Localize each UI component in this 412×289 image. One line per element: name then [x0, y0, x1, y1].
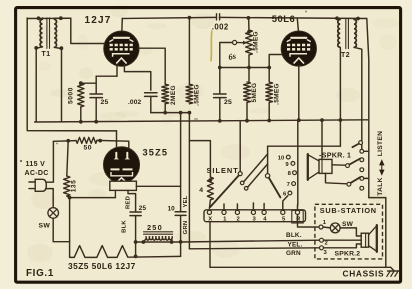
node pot bottom — [247, 66, 251, 70]
svg-text:FIG.1: FIG.1 — [26, 268, 54, 279]
svg-text:SUB-STATION: SUB-STATION — [320, 206, 377, 215]
svg-text:115 V: 115 V — [26, 161, 46, 168]
talk-listen double arrow — [380, 161, 384, 175]
wire top rail right of coupling cap — [219, 17, 366, 18]
svg-text:GRN: GRN — [183, 221, 189, 235]
wire yellow column lower — [180, 216, 182, 242]
wire 50 line — [53, 140, 76, 143]
wire 25uf cap column — [95, 76, 97, 122]
wire spkr1 top lead — [321, 121, 323, 160]
annotation Gs — [227, 50, 237, 61]
rotary contacts 6-10 — [278, 155, 297, 197]
label RED — [125, 196, 131, 209]
label SPKR.1 — [319, 150, 351, 159]
wire tl r4 to bus — [364, 177, 369, 179]
component 250 filter — [143, 232, 172, 242]
label 35Z5 — [143, 147, 169, 157]
wire section ground bus — [35, 120, 369, 122]
node bus 25cap2 — [218, 119, 222, 123]
wire riser 4 — [263, 204, 265, 211]
wire rail to .5MEG — [188, 18, 190, 85]
transformer T2 core — [346, 18, 349, 48]
node yel-b-minus — [179, 240, 183, 244]
node rail-T2a — [335, 16, 339, 20]
node bus 5000 — [79, 120, 83, 124]
wire plug hot to 50 line — [46, 141, 53, 182]
label 50L6 — [272, 13, 295, 24]
svg-text:.002: .002 — [128, 99, 141, 106]
wire SW to heater corner — [53, 218, 69, 242]
wire riser R — [297, 205, 299, 210]
wire T1 primary top lead — [42, 18, 44, 19]
node 50 right — [98, 139, 102, 143]
node T1 secondary top — [59, 16, 63, 20]
wire pot top — [247, 16, 251, 34]
wire 5000 to bus — [80, 107, 82, 122]
lamp SW sub-station — [330, 221, 353, 233]
wire wiper to 25 cap — [220, 43, 233, 68]
wire below 25 filter — [135, 216, 137, 257]
svg-text:25: 25 — [101, 99, 109, 106]
wire 135 to heater line — [67, 196, 70, 257]
resistor 135 — [64, 176, 78, 196]
svg-text:SILENT: SILENT — [207, 166, 239, 175]
label BLK. — [286, 232, 302, 239]
wire lamp to spkr2 — [340, 228, 361, 236]
transformer T1 primary coil — [40, 19, 42, 47]
wire 12J7 cathode stub left — [116, 65, 118, 77]
tl arm mid — [349, 159, 360, 165]
strip extra box R — [292, 210, 303, 223]
contact tl r2 — [360, 158, 364, 162]
pencil scratch artifact — [211, 31, 212, 62]
node heater-end junction — [134, 255, 138, 259]
svg-text:250: 250 — [147, 223, 163, 232]
tube 35Z5 socket — [110, 181, 137, 197]
resistor 5MEG — [244, 82, 258, 103]
wire left B+ drop — [27, 18, 116, 131]
wire yel column to heater end — [180, 242, 182, 256]
node T1 secondary bottom — [60, 46, 64, 50]
wire to 5000 resistor — [81, 82, 96, 84]
tube 35Z5 — [103, 147, 139, 183]
speaker SPKR.1 — [308, 154, 332, 180]
wire T1 top lead — [27, 17, 71, 19]
resistor 2MEG — [162, 84, 177, 105]
node mid grn-wire — [188, 111, 192, 115]
label LISTEN — [377, 131, 384, 157]
wire talk pivot riser — [267, 146, 269, 173]
wire lower bus y67 — [220, 67, 269, 69]
node 250 right — [170, 240, 174, 244]
contact tl r3 — [360, 168, 364, 172]
wire .002 to mid-line — [150, 97, 152, 113]
wire talk riser crossbar — [268, 145, 341, 147]
wire 50L6 cathode drop to R — [297, 122, 299, 206]
svg-text:SW: SW — [39, 223, 51, 230]
terminal 2 — [320, 238, 329, 246]
wire yellow column — [180, 113, 182, 212]
tl arm top — [352, 144, 359, 148]
svg-text:.5MEG: .5MEG — [273, 83, 280, 105]
node bus 50L6 — [297, 118, 301, 122]
label CHASSIS — [343, 268, 385, 278]
svg-text:T2: T2 — [341, 52, 350, 59]
svg-text:50L6: 50L6 — [272, 13, 295, 24]
svg-text:4: 4 — [199, 187, 203, 194]
resistor .5MEG grid leak — [186, 84, 201, 106]
speaker SPKR.2 — [361, 225, 377, 252]
tube 12J7 — [104, 31, 139, 66]
node y67-.5meg — [267, 66, 271, 70]
svg-text:AC-DC: AC-DC — [25, 170, 49, 177]
pot wiper arrow — [233, 40, 248, 44]
capacitor .002 grid coupling — [128, 93, 157, 106]
svg-text:.5MEG: .5MEG — [194, 84, 201, 106]
label T1 — [42, 51, 51, 58]
chassis ground symbol — [387, 267, 399, 276]
wire GRN to terminal 3 — [189, 248, 319, 249]
contact throw a — [240, 181, 244, 185]
label 115V AC-DC — [25, 161, 49, 177]
svg-text:BLK: BLK — [122, 220, 128, 233]
ink speck — [20, 11, 307, 163]
node rail-T1 — [37, 16, 41, 20]
node bus 25cap — [94, 120, 98, 124]
svg-text:TALK: TALK — [377, 177, 384, 196]
contact tl r5 — [360, 186, 364, 190]
node bus spkr — [320, 118, 324, 122]
svg-text:BLK.: BLK. — [286, 232, 302, 239]
wire chassis line — [210, 266, 391, 268]
wire T2 secondary top lead — [353, 19, 355, 20]
switch strip — [204, 210, 306, 222]
svg-text:10: 10 — [278, 155, 285, 161]
svg-text:35Z5 50L6 12J7: 35Z5 50L6 12J7 — [68, 261, 136, 271]
capacitor 10 filter — [168, 206, 187, 216]
wire t1 to lamp — [323, 226, 330, 229]
label YEL. — [288, 242, 303, 249]
svg-text:YEL: YEL — [183, 195, 189, 207]
svg-text:CHASSIS: CHASSIS — [343, 268, 385, 278]
svg-text:25: 25 — [139, 205, 147, 212]
capacitor .002 series coupling — [212, 14, 229, 32]
node 135-250 junction — [134, 240, 138, 244]
wire plug neutral to switch — [46, 189, 53, 208]
potentiometer .5MEG volume — [246, 30, 260, 55]
label 12J7 — [85, 15, 112, 26]
wire silent pivot riser — [239, 122, 241, 172]
svg-text:.002: .002 — [212, 23, 229, 32]
wire T1 secondary bottom lead — [54, 47, 61, 122]
node rail-T2b — [356, 17, 360, 21]
node rail-grid-leak — [188, 16, 192, 20]
wire t2 to spkr2 — [324, 239, 362, 241]
node T1 primary bottom — [34, 46, 38, 50]
wire riser 5 — [283, 196, 288, 211]
label GRN — [183, 221, 189, 235]
svg-text:35Z5: 35Z5 — [143, 147, 169, 157]
node bus .5MEG — [267, 119, 271, 123]
resistor 4 — [199, 177, 213, 200]
talk switch arm — [269, 178, 281, 198]
wire 5MEG to bus — [246, 103, 248, 121]
wire grn to res4 — [189, 141, 210, 177]
wire t3 stub — [324, 244, 362, 248]
contact tl pole mid — [346, 164, 350, 168]
wire mid-line — [151, 112, 190, 114]
switch strip contacts X 1 2 3 4 5 R — [207, 210, 301, 222]
wire T2 primary top lead — [339, 18, 341, 19]
wire T2 primary bottom — [339, 47, 341, 146]
svg-text:-SPKR.: -SPKR. — [319, 150, 345, 159]
transformer T1 secondary coil — [54, 19, 56, 47]
label SILENT — [207, 166, 239, 175]
label GRN. — [286, 250, 301, 257]
wire spkr1 mid to pole — [332, 164, 345, 166]
silent switch arm — [210, 175, 239, 207]
resistor 135 feed — [67, 141, 68, 176]
label BLK — [122, 220, 128, 233]
label TALK — [377, 177, 384, 196]
wire R to terminal 1 BLK — [298, 215, 319, 227]
wire 12J7 suppressor stub — [124, 65, 150, 91]
wire top rail plate segment — [122, 17, 216, 18]
label YEL — [183, 195, 189, 207]
wire green column — [188, 113, 190, 249]
label SPKR.2 — [335, 251, 361, 258]
wire right drop to chassis — [369, 198, 386, 268]
wire 35Z5 left plate riser — [116, 131, 118, 151]
wire riser 1 — [223, 204, 225, 210]
wire socket right pin — [128, 190, 136, 211]
wire cathode bus — [96, 75, 117, 77]
label T2 — [341, 52, 350, 59]
svg-text:2MEG: 2MEG — [170, 85, 177, 105]
svg-text:5MEG: 5MEG — [251, 82, 258, 102]
transformer T2 secondary coil — [354, 19, 356, 47]
wire T2 secondary bottom — [354, 47, 362, 149]
terminal 1 — [319, 220, 327, 229]
svg-text:10: 10 — [168, 206, 176, 213]
wire spkr1 bottom lead — [326, 173, 347, 183]
wire heater string — [70, 246, 181, 258]
wire 25 cap column — [218, 66, 222, 121]
wire strip to chassis — [209, 222, 211, 267]
contact talk pivot — [265, 174, 269, 178]
wire 50L6 cathode to bus — [298, 66, 300, 120]
wire .5MEG to bus — [268, 103, 270, 121]
wire heater tap to tube pin — [70, 197, 116, 199]
node cathode-5000 — [79, 81, 83, 85]
node 50 left — [66, 139, 70, 143]
capacitor 25 coupling — [214, 94, 232, 106]
tl arm low — [350, 177, 360, 183]
wire riser 2 — [236, 204, 238, 210]
wire 2MEG to mid-line — [164, 104, 166, 113]
wire tl r1 to bus — [364, 150, 369, 152]
plug 115V — [29, 179, 46, 191]
transformer T1 core — [47, 18, 50, 49]
contact throw b — [244, 187, 248, 191]
node mid 2MEG — [163, 111, 167, 115]
wire pot bottom to 5MEG — [248, 55, 250, 82]
wire YEL to terminal 2 — [181, 240, 320, 242]
transformer T2 primary coil — [338, 19, 340, 47]
node bus T2a — [339, 118, 343, 122]
svg-text:12J7: 12J7 — [85, 15, 112, 26]
svg-text:T1: T1 — [42, 51, 51, 58]
capacitor 25 cathode bypass — [90, 94, 108, 106]
contact tl r4 — [360, 177, 364, 181]
wire B-minus line — [136, 241, 181, 243]
wire 12J7 plate to rail — [121, 19, 124, 33]
label SUB-STATION — [320, 206, 377, 215]
resistor 50 — [76, 137, 97, 151]
node res4 top — [209, 178, 213, 182]
wire riser 3 — [252, 203, 254, 210]
tube 50L6 — [281, 31, 316, 66]
wire T1 primary bottom lead — [36, 47, 42, 122]
node bus 5MEG — [245, 119, 249, 123]
wire throw b to talk riser — [248, 164, 268, 187]
svg-text:25: 25 — [224, 99, 232, 106]
contact silent pivot — [238, 172, 242, 176]
resistor .5MEG output grid — [266, 82, 281, 105]
wire throw a to talk riser — [244, 154, 268, 182]
wire T1 secondary to grid — [54, 18, 104, 43]
label 250 — [147, 223, 163, 232]
node 250 left — [142, 240, 146, 244]
label FIG.1 — [26, 268, 54, 279]
svg-text:GRN: GRN — [286, 250, 301, 257]
wire 50L6 plate to rail — [297, 18, 298, 32]
terminal 3 — [320, 246, 328, 256]
wire screen to 2MEG — [138, 48, 165, 84]
wire 50 to 35Z5 plate — [97, 140, 129, 152]
svg-text:1: 1 — [347, 152, 351, 159]
wire .5MEG top to 50L6 grid — [269, 55, 282, 83]
resistor 5000 — [68, 83, 84, 107]
node mid yellow-wire — [179, 111, 183, 115]
svg-text:RED: RED — [125, 196, 131, 209]
svg-text:SPKR.2: SPKR.2 — [335, 251, 361, 258]
svg-text:LISTEN: LISTEN — [377, 131, 384, 157]
sub-station dashed box — [315, 204, 383, 259]
contact tl pole low — [347, 182, 351, 186]
contact tl r1 — [360, 149, 364, 153]
capacitor 25 filter — [130, 205, 146, 216]
svg-text:135: 135 — [70, 180, 77, 193]
node heater tap — [68, 196, 72, 200]
wire res4 to X — [209, 200, 210, 208]
wire right rail drop — [367, 19, 369, 198]
svg-text:50: 50 — [84, 145, 93, 152]
switch SW line — [39, 208, 59, 230]
label 35Z5 50L6 12J7 heaters — [68, 261, 136, 271]
svg-text:5000: 5000 — [68, 87, 75, 104]
contact tl top throw — [359, 141, 363, 145]
svg-text:SW: SW — [342, 221, 354, 228]
wire T1 secondary top lead — [53, 18, 55, 19]
wire 35Z5 output to yellow wire — [136, 185, 180, 187]
svg-text:.5MEG: .5MEG — [252, 31, 259, 53]
